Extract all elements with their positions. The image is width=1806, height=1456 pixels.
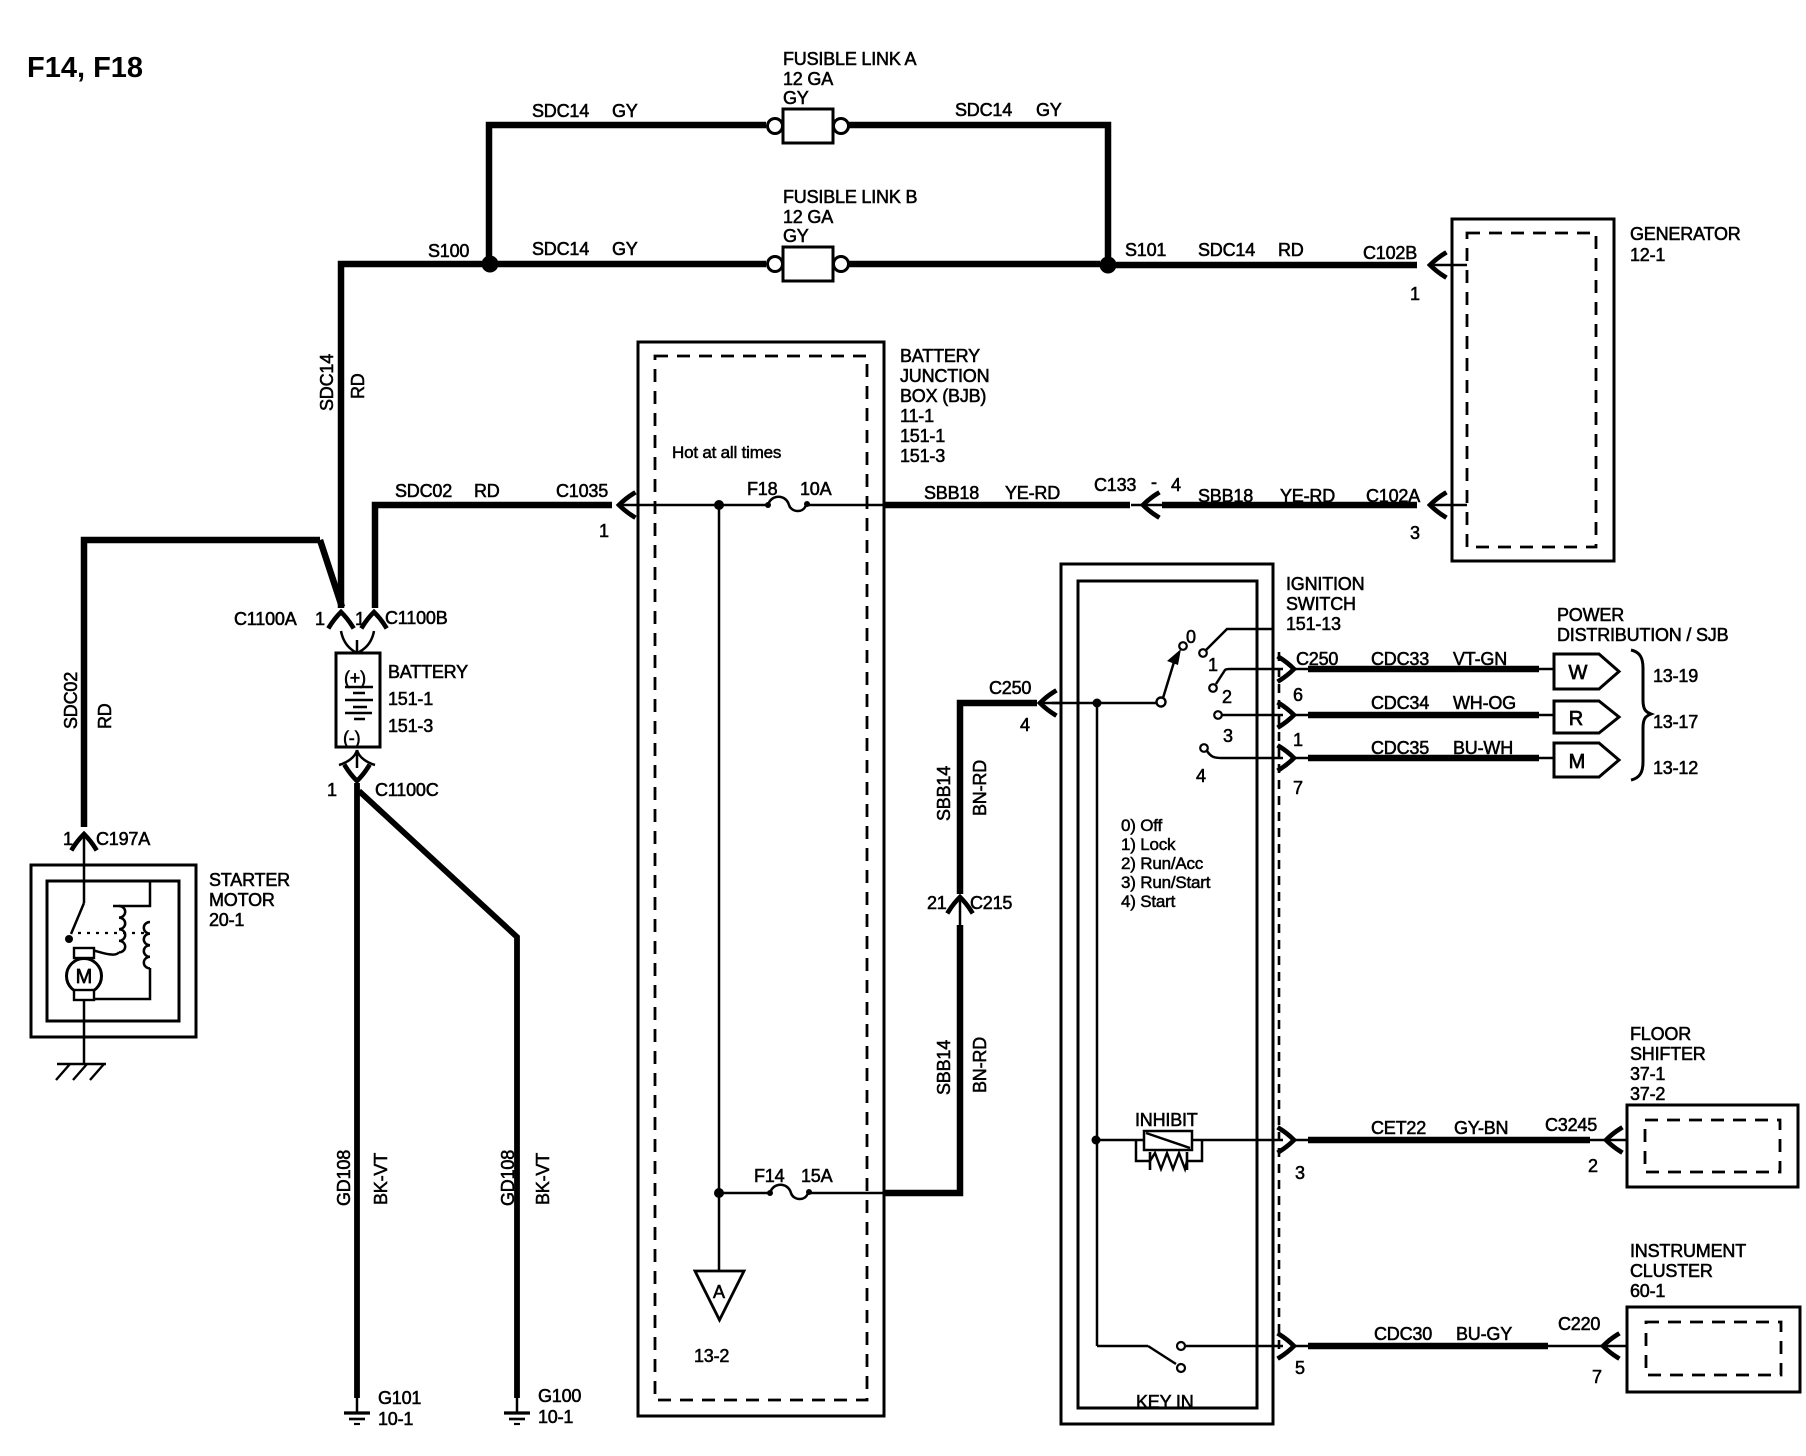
wire stub into BJB F18 [619, 504, 719, 507]
KEY IN upper contact [1177, 1342, 1185, 1350]
svg-text:SDC02: SDC02 [61, 672, 81, 729]
svg-text:151-3: 151-3 [900, 446, 945, 466]
svg-text:151-1: 151-1 [388, 689, 433, 709]
svg-text:DISTRIBUTION / SJB: DISTRIBUTION / SJB [1557, 625, 1729, 645]
label SDC14 GY (link A right) [955, 100, 1062, 120]
label FLOOR SHIFTER 37-1 37-2 [1630, 1024, 1706, 1104]
svg-text:2: 2 [1222, 687, 1232, 707]
svg-text:2) Run/Acc: 2) Run/Acc [1121, 854, 1204, 873]
svg-text:FLOOR: FLOOR [1630, 1024, 1691, 1044]
wire SDC02 RD battery to C1035 [375, 505, 612, 608]
label INSTRUMENT CLUSTER 60-1 [1630, 1241, 1746, 1301]
svg-text:13-19: 13-19 [1653, 666, 1698, 686]
svg-text:-: - [1151, 472, 1157, 492]
svg-text:FUSIBLE LINK A: FUSIBLE LINK A [783, 49, 916, 69]
wire bus down to fuse symbol A [718, 1193, 721, 1271]
fuse F18 10A [719, 497, 884, 511]
label GENERATOR 12-1 [1630, 224, 1741, 265]
wire GD108 BK-VT down to G101 [354, 783, 360, 1398]
svg-text:3: 3 [1295, 1163, 1305, 1183]
svg-text:C250: C250 [1296, 649, 1338, 669]
starter motor M1 circle [67, 959, 102, 994]
svg-text:SBB18: SBB18 [1198, 486, 1253, 506]
label SBB14 BN-RD rotated (upper) [934, 760, 990, 821]
svg-text:STARTER: STARTER [209, 870, 290, 890]
svg-text:KEY IN: KEY IN [1136, 1392, 1194, 1412]
SJB brace [1631, 650, 1651, 780]
wire SBB18 YE-RD from C133 to C102A [1162, 502, 1417, 509]
svg-text:C1100B: C1100B [385, 608, 448, 628]
svg-text:151-3: 151-3 [388, 716, 433, 736]
svg-text:SDC14: SDC14 [532, 239, 589, 259]
label F14 15A [754, 1166, 833, 1186]
fusible link A [768, 109, 849, 143]
position 3 contact [1200, 744, 1208, 752]
svg-text:M: M [1569, 751, 1586, 773]
svg-text:SDC14: SDC14 [955, 100, 1012, 120]
connector C102A arrow [1430, 494, 1445, 517]
svg-text:SHIFTER: SHIFTER [1630, 1044, 1706, 1064]
svg-text:12 GA: 12 GA [783, 207, 833, 227]
connector arrow pin 1 [1280, 704, 1295, 727]
connector C250 arrow pin 4 [1040, 692, 1061, 715]
svg-text:FUSIBLE LINK B: FUSIBLE LINK B [783, 187, 917, 207]
label C1100A 1 1 C1100B [234, 608, 448, 629]
svg-text:4: 4 [1171, 475, 1181, 495]
svg-text:GY: GY [612, 239, 638, 259]
fuse F14 15A [719, 1185, 884, 1199]
label SBB18 YE-RD C102A [1198, 486, 1420, 506]
connector C133-4 arrow [1131, 494, 1162, 517]
wire from position 0 to box edge [1206, 629, 1272, 650]
svg-text:R: R [1569, 708, 1583, 730]
svg-text:1: 1 [1410, 284, 1420, 304]
svg-text:MOTOR: MOTOR [209, 890, 275, 910]
svg-text:VT-GN: VT-GN [1453, 649, 1507, 669]
KEY IN lower contact [1177, 1364, 1185, 1372]
BJB inner dashed outline [655, 356, 867, 1400]
label BATTERY JUNCTION BOX [900, 346, 989, 466]
wire diagonal to G100 branch [359, 791, 517, 1398]
generator inner dashed outline [1467, 233, 1596, 547]
SJB terminal W [1554, 654, 1619, 689]
svg-text:(-): (-) [343, 728, 360, 748]
svg-text:INHIBIT: INHIBIT [1135, 1110, 1198, 1130]
label CDC35 BU-WH [1371, 738, 1513, 758]
label C250 4 [989, 678, 1031, 735]
svg-text:1: 1 [63, 829, 73, 849]
label BATTERY 151-1 151-3 [388, 662, 468, 736]
label S101 SDC14 RD C102B [1125, 240, 1417, 263]
svg-text:1) Lock: 1) Lock [1121, 835, 1176, 854]
wire SBB14 BN-RD loop from F14 up to C250 pin 4 [884, 925, 960, 1193]
label CET22 GY-BN C3245 [1371, 1115, 1597, 1138]
svg-text:4: 4 [1196, 766, 1206, 786]
svg-text:1: 1 [599, 521, 609, 541]
connector C215 arrow [949, 896, 972, 928]
KEY IN lever [1148, 1346, 1176, 1364]
starter motor inner box outline [47, 881, 179, 1021]
svg-text:7: 7 [1592, 1367, 1602, 1387]
wire from fusible link B to S101 [848, 261, 1100, 268]
svg-text:3: 3 [1223, 726, 1233, 746]
connector C250 dashed line [1278, 652, 1281, 1352]
wire SBB18 YE-RD from BJB to C133 [884, 502, 1130, 509]
svg-text:BATTERY: BATTERY [900, 346, 980, 366]
wire CET22 GY-BN to floor shifter [1294, 1139, 1627, 1142]
svg-text:151-1: 151-1 [900, 426, 945, 446]
label SDC14 GY (S100 branch) [532, 239, 638, 259]
wire SDC14 GY from fusible link A to S101 [848, 125, 1108, 260]
svg-text:G100: G100 [538, 1386, 581, 1406]
starter solenoid coil left [119, 906, 125, 952]
svg-text:F14, F18: F14, F18 [27, 52, 143, 84]
connector C1100B arrow [363, 612, 386, 627]
instrument cluster inner dashed outline [1646, 1322, 1781, 1375]
svg-text:G101: G101 [378, 1388, 421, 1408]
svg-text:13-12: 13-12 [1653, 758, 1698, 778]
svg-text:CDC34: CDC34 [1371, 693, 1429, 713]
KEY IN switch wire [1097, 1345, 1148, 1348]
svg-text:F14: F14 [754, 1166, 785, 1186]
svg-text:C215: C215 [970, 893, 1012, 913]
connector C102B arrow [1430, 254, 1445, 277]
wire into starter motor box [83, 836, 86, 903]
starter motor top terminal [74, 948, 94, 958]
battery positive merge curves [341, 631, 374, 653]
wire INHIBIT to pin 3 [1192, 1139, 1283, 1142]
connector C220 arrow [1603, 1335, 1618, 1358]
svg-text:RD: RD [474, 481, 500, 501]
svg-text:3: 3 [1410, 523, 1420, 543]
label G100 10-1 [538, 1386, 581, 1427]
svg-text:GY: GY [1036, 100, 1062, 120]
svg-text:S101: S101 [1125, 240, 1166, 260]
starter solenoid dashed actuator line [78, 932, 148, 934]
svg-text:C220: C220 [1558, 1314, 1600, 1334]
svg-text:20-1: 20-1 [209, 910, 244, 930]
svg-text:11-1: 11-1 [900, 406, 934, 426]
wire coil right to motor bottom [95, 968, 150, 999]
svg-text:1: 1 [315, 609, 325, 629]
svg-text:SWITCH: SWITCH [1286, 594, 1356, 614]
wire to INHIBIT element [1096, 1139, 1144, 1142]
wire from position 2 to C250 pin 1 [1222, 714, 1283, 717]
svg-text:1: 1 [1208, 655, 1218, 675]
node junction inside ignition switch [1093, 699, 1102, 708]
wire stub into generator pin 1 [1430, 264, 1467, 267]
svg-text:(+): (+) [344, 668, 366, 688]
INHIBIT parallel resistor [1136, 1140, 1202, 1170]
svg-text:0) Off: 0) Off [1121, 816, 1162, 835]
svg-text:13-17: 13-17 [1653, 712, 1698, 732]
fusible link B [768, 247, 849, 281]
wire CDC34 WH-OG to SJB R [1294, 714, 1554, 717]
svg-text:C3245: C3245 [1545, 1115, 1597, 1135]
SJB terminal M [1554, 743, 1619, 777]
svg-text:Hot at all times: Hot at all times [672, 443, 781, 462]
svg-text:1: 1 [355, 609, 365, 629]
svg-text:BK-VT: BK-VT [371, 1153, 391, 1205]
svg-text:BN-RD: BN-RD [970, 760, 990, 816]
wire diagonal into C1100A [320, 540, 342, 607]
wire CDC35 BU-WH to SJB M [1294, 757, 1554, 760]
contact circle at lever tip [1179, 642, 1187, 650]
starter motor box outline [31, 865, 196, 1037]
svg-text:C1035: C1035 [556, 481, 608, 501]
svg-text:10A: 10A [800, 479, 832, 499]
position 2 contact [1214, 711, 1222, 719]
label SDC02 RD rotated on starter feed [61, 672, 115, 729]
instrument cluster box outline [1627, 1307, 1800, 1392]
starter solenoid switch lever [71, 903, 84, 934]
label switch positions list [1121, 816, 1211, 911]
svg-text:GY: GY [783, 88, 809, 108]
svg-text:BK-VT: BK-VT [533, 1153, 553, 1205]
starter solenoid coil right [144, 922, 150, 968]
connector arrow pin 5 [1280, 1335, 1295, 1358]
svg-text:4) Start: 4) Start [1121, 892, 1176, 911]
svg-text:GENERATOR: GENERATOR [1630, 224, 1741, 244]
position 0 contact [1199, 649, 1207, 657]
ignition switch lever [1163, 662, 1174, 698]
connector arrow pin 3 [1280, 1129, 1295, 1152]
label GD108 BK-VT rotated (left ground wire) [334, 1150, 391, 1206]
node S101 [1100, 257, 1117, 274]
svg-text:GY: GY [783, 226, 809, 246]
label CDC30 BU-GY C220 [1374, 1314, 1600, 1344]
svg-text:CET22: CET22 [1371, 1118, 1426, 1138]
label 1 C197A [63, 829, 150, 849]
connector arrow pin 7 [1280, 747, 1295, 770]
starter solenoid feed line [113, 881, 150, 906]
label FUSIBLE LINK B 12 GA GY [783, 187, 917, 246]
wire C250 into ignition switch pivot [1052, 702, 1156, 705]
svg-text:37-1: 37-1 [1630, 1064, 1665, 1084]
svg-text:6: 6 [1293, 685, 1303, 705]
svg-text:RD: RD [95, 703, 115, 729]
svg-text:YE-RD: YE-RD [1280, 486, 1335, 506]
svg-text:SDC14: SDC14 [532, 101, 589, 121]
wire battery feed to starter: horizontal and down [84, 540, 320, 827]
label CDC34 WH-OG [1371, 693, 1516, 713]
label C250 CDC33 VT-GN [1296, 649, 1507, 669]
svg-text:W: W [1569, 662, 1588, 684]
position 1 contact [1209, 684, 1217, 692]
svg-text:2: 2 [1588, 1156, 1598, 1176]
svg-text:BOX (BJB): BOX (BJB) [900, 386, 986, 406]
wire CDC33 VT-GN to SJB W [1294, 668, 1554, 671]
svg-text:GY-BN: GY-BN [1454, 1118, 1508, 1138]
node INHIBIT tap [1092, 1136, 1101, 1145]
svg-text:RD: RD [348, 373, 368, 399]
svg-text:SBB18: SBB18 [924, 483, 979, 503]
INHIBIT thermal element [1144, 1131, 1192, 1150]
label SDC14 GY (top branch) [532, 101, 638, 121]
svg-text:12-1: 12-1 [1630, 245, 1665, 265]
svg-text:CDC30: CDC30 [1374, 1324, 1432, 1344]
label POWER DISTRIBUTION / SJB [1557, 605, 1729, 645]
svg-text:13-2: 13-2 [694, 1346, 729, 1366]
svg-text:SBB14: SBB14 [934, 1040, 954, 1095]
svg-text:M: M [76, 966, 93, 988]
wire CDC30 BU-GY to instrument cluster [1294, 1345, 1627, 1348]
svg-text:CDC35: CDC35 [1371, 738, 1429, 758]
wire SDC14 GY from S100 to fusible link B [498, 261, 766, 268]
connector C1100C arrow [346, 767, 369, 782]
wire motor to chassis ground [83, 1000, 86, 1064]
svg-text:C1100A: C1100A [234, 609, 297, 629]
label STARTER MOTOR 20-1 [209, 870, 290, 930]
BJB internal bus wire [718, 505, 721, 1193]
svg-text:15A: 15A [801, 1166, 833, 1186]
node at F14 tap [714, 1188, 724, 1198]
label GD108 BK-VT rotated (right ground wire) [498, 1150, 553, 1206]
svg-text:37-2: 37-2 [1630, 1084, 1665, 1104]
label SBB14 BN-RD rotated (lower) [934, 1037, 990, 1095]
svg-text:1: 1 [1293, 730, 1303, 750]
battery negative split curves [339, 750, 375, 768]
svg-text:1: 1 [327, 780, 337, 800]
svg-text:10-1: 10-1 [378, 1409, 413, 1429]
label FUSIBLE LINK A 12 GA GY [783, 49, 916, 108]
battery B1 [336, 653, 380, 748]
battery junction box BJB outline [638, 342, 884, 1416]
svg-text:C250: C250 [989, 678, 1031, 698]
connector C3245 arrow [1606, 1129, 1621, 1152]
svg-text:POWER: POWER [1557, 605, 1624, 625]
wire SDC14 RD from S101 to C102B [1116, 262, 1417, 269]
wire internal bus down to KEY IN [1096, 703, 1099, 1346]
svg-text:IGNITION: IGNITION [1286, 574, 1364, 594]
wire KEY IN to pin 5 [1185, 1345, 1283, 1348]
svg-text:7: 7 [1293, 778, 1303, 798]
connector C1035 arrow [619, 494, 634, 517]
ignition lever arrowhead [1167, 649, 1181, 665]
svg-text:F18: F18 [747, 479, 778, 499]
label 21 C215 [927, 893, 1012, 913]
connector arrow pin 6 [1280, 658, 1295, 681]
svg-text:60-1: 60-1 [1630, 1281, 1665, 1301]
svg-text:BU-WH: BU-WH [1453, 738, 1513, 758]
svg-text:BN-RD: BN-RD [970, 1037, 990, 1093]
label F18 10A [747, 479, 832, 499]
svg-text:GD108: GD108 [334, 1150, 354, 1206]
connector C197A arrow [73, 834, 96, 849]
label 1 C1100C [327, 780, 439, 800]
label G101 10-1 [378, 1388, 421, 1429]
label SBB18 YE-RD C133 - 4 [924, 472, 1181, 503]
connector C1100A arrow [330, 612, 353, 627]
svg-text:INSTRUMENT: INSTRUMENT [1630, 1241, 1746, 1261]
svg-text:YE-RD: YE-RD [1005, 483, 1060, 503]
ground G100 [504, 1398, 530, 1424]
svg-text:C1100C: C1100C [375, 780, 439, 800]
svg-text:WH-OG: WH-OG [1453, 693, 1516, 713]
wire SDC14 GY top branch to fusible link A [489, 125, 766, 260]
SJB terminal R [1554, 701, 1619, 733]
label SDC02 RD C1035 [395, 481, 608, 501]
svg-text:CLUSTER: CLUSTER [1630, 1261, 1713, 1281]
ignition switch pivot contact [1157, 698, 1166, 707]
svg-text:BU-GY: BU-GY [1456, 1324, 1512, 1344]
svg-text:SDC02: SDC02 [395, 481, 452, 501]
svg-text:BATTERY: BATTERY [388, 662, 468, 682]
svg-text:SDC14: SDC14 [317, 354, 337, 411]
ground G101 [344, 1398, 370, 1424]
label SDC14 RD rotated on battery feed [317, 354, 368, 411]
svg-text:RD: RD [1278, 240, 1304, 260]
floor shifter inner dashed outline [1645, 1120, 1780, 1172]
wire from S100 left then down to battery [341, 264, 482, 608]
svg-text:C197A: C197A [96, 829, 150, 849]
svg-text:C102A: C102A [1366, 486, 1420, 506]
svg-text:C102B: C102B [1363, 243, 1417, 263]
svg-text:JUNCTION: JUNCTION [900, 366, 989, 386]
svg-text:SBB14: SBB14 [934, 766, 954, 821]
svg-text:4: 4 [1020, 715, 1030, 735]
wire coil to motor top [86, 949, 119, 955]
svg-text:12 GA: 12 GA [783, 69, 833, 89]
node at F18 tap [714, 500, 724, 510]
wire SBB14 BN-RD from C215 to C250 [960, 703, 1037, 894]
chassis ground under starter [56, 1064, 106, 1080]
wire from position 3 to C250 pin 7 [1207, 751, 1283, 758]
label IGNITION SWITCH 151-13 [1286, 574, 1364, 634]
svg-text:10-1: 10-1 [538, 1407, 573, 1427]
svg-text:21: 21 [927, 893, 947, 913]
svg-text:GD108: GD108 [498, 1150, 518, 1206]
fuse element triangle A [695, 1271, 744, 1320]
svg-text:0: 0 [1186, 627, 1196, 647]
ignition switch inner box outline [1078, 581, 1257, 1408]
svg-text:GY: GY [612, 101, 638, 121]
svg-text:CDC33: CDC33 [1371, 649, 1429, 669]
svg-text:5: 5 [1295, 1358, 1305, 1378]
floor shifter box outline [1627, 1105, 1798, 1187]
svg-text:151-13: 151-13 [1286, 614, 1341, 634]
wire stub into generator pin 3 [1430, 504, 1467, 507]
ignition switch box outline [1061, 564, 1273, 1424]
starter lever contact blob [65, 935, 73, 943]
svg-text:SDC14: SDC14 [1198, 240, 1255, 260]
svg-text:S100: S100 [428, 241, 469, 261]
svg-text:C133: C133 [1094, 475, 1136, 495]
node S100 [482, 256, 499, 273]
svg-text:A: A [713, 1282, 725, 1302]
generator box outline [1452, 219, 1614, 561]
wire from position 1 to C250 pin 6 [1216, 669, 1283, 684]
svg-text:3) Run/Start: 3) Run/Start [1121, 873, 1211, 892]
starter motor bottom terminal [74, 990, 94, 1000]
